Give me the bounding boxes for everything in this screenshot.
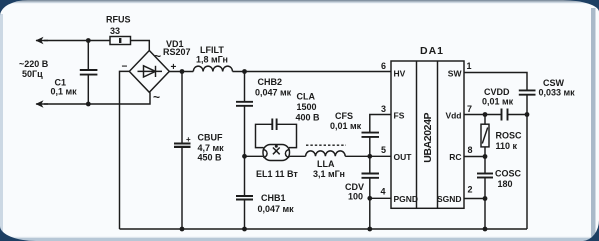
svg-text:CDV: CDV: [345, 182, 364, 192]
capacitor C1: [87, 41, 89, 71]
svg-text:0,01 мк: 0,01 мк: [482, 97, 514, 107]
wire bridge minus to left rail: [120, 71, 130, 229]
wire SW pin1 to CSW: [464, 73, 527, 91]
node AC input line N arrow: [36, 103, 48, 105]
svg-text:4,7 мк: 4,7 мк: [198, 143, 225, 153]
svg-text:CFS: CFS: [335, 111, 353, 121]
svg-text:0,1 мк: 0,1 мк: [51, 87, 78, 97]
wire AC bottom to bridge: [44, 92, 150, 104]
svg-text:2: 2: [468, 185, 473, 195]
node junction CDV bottom rail: [367, 227, 372, 232]
wire RFUS to bridge top: [131, 41, 150, 51]
svg-text:LFILT: LFILT: [200, 45, 224, 55]
inductor LFILT: [193, 66, 232, 71]
node junction ROSC top: [483, 112, 488, 117]
svg-text:RFUS: RFUS: [106, 15, 131, 25]
svg-text:1,8 мГн: 1,8 мГн: [196, 55, 228, 65]
wire SGND pin2: [464, 198, 485, 200]
svg-text:CLA: CLA: [297, 92, 316, 102]
svg-text:3: 3: [381, 104, 386, 114]
svg-text:RS207: RS207: [163, 47, 191, 57]
svg-text:Vdd: Vdd: [445, 111, 461, 121]
capacitor COSC: [484, 157, 486, 174]
svg-text:+: +: [186, 135, 191, 144]
svg-text:HV: HV: [394, 69, 406, 79]
node junction CHB1 bottom rail: [242, 227, 247, 232]
svg-text:33: 33: [110, 26, 120, 36]
svg-text:CBUF: CBUF: [198, 133, 223, 143]
svg-text:8: 8: [468, 145, 473, 155]
svg-text:0,047 мк: 0,047 мк: [255, 88, 292, 98]
node junction C1 bottom: [86, 102, 91, 107]
node junction SGND: [483, 196, 488, 201]
node junction PGND: [367, 196, 372, 201]
capacitor CHB2: [244, 72, 246, 102]
svg-text:50Гц: 50Гц: [22, 69, 43, 79]
wire LFILT to IC pin6: [233, 71, 392, 73]
svg-text:SW: SW: [448, 69, 463, 79]
svg-text:LLA: LLA: [317, 159, 335, 169]
svg-text:ROSC: ROSC: [496, 131, 523, 141]
wire AC top from arrow to RFUS: [44, 40, 110, 42]
svg-text:6: 6: [381, 61, 386, 71]
svg-text:4: 4: [381, 187, 386, 197]
node junction CBUF bottom: [180, 227, 185, 232]
svg-text:5: 5: [381, 145, 386, 155]
svg-text:1: 1: [467, 61, 472, 71]
resistor ROSC: [484, 115, 486, 125]
svg-text:CSW: CSW: [543, 78, 565, 88]
capacitor CFS: [362, 132, 380, 134]
svg-text:UBA2024P: UBA2024P: [422, 112, 434, 162]
capacitor CBUF: [181, 72, 183, 144]
resistor RFUS: [110, 37, 131, 45]
capacitor CLA across lamp: [256, 124, 273, 147]
capacitor CDV: [369, 156, 371, 173]
wire bridge plus to IC HV: [169, 71, 193, 73]
svg-text:1500: 1500: [297, 102, 317, 112]
node AC input line L arrow: [36, 40, 48, 42]
wire bottom rail: [120, 228, 528, 230]
node junction OUT/CFS/CDV: [367, 154, 372, 159]
svg-text:~: ~: [153, 90, 160, 104]
svg-text:180: 180: [498, 179, 513, 189]
svg-text:110 к: 110 к: [496, 141, 518, 151]
wire PGND pin4: [370, 198, 391, 229]
svg-text:RC: RC: [449, 152, 461, 162]
svg-text:7: 7: [467, 104, 472, 114]
svg-text:COSC: COSC: [495, 169, 522, 179]
svg-text:~: ~: [154, 49, 161, 63]
svg-text:3,1 мГн: 3,1 мГн: [313, 169, 345, 179]
svg-text:~220 В: ~220 В: [19, 59, 49, 69]
IC DA1 UBA2024P: [391, 61, 464, 208]
capacitor CVDD: [501, 109, 503, 121]
node junction CVDD right: [525, 112, 530, 117]
lamp EL1: [245, 155, 264, 157]
wire Vdd pin7: [464, 114, 502, 116]
wire RC pin8: [464, 156, 485, 158]
svg-text:OUT: OUT: [394, 152, 413, 162]
svg-text:0,047 мк: 0,047 мк: [258, 204, 295, 214]
svg-text:CHB1: CHB1: [261, 193, 286, 203]
svg-text:DA1: DA1: [420, 45, 444, 57]
svg-text:CHB2: CHB2: [258, 77, 283, 87]
bridge rectifier VD1 RS207: [129, 51, 169, 93]
node junction C1 top: [86, 38, 91, 43]
svg-text:PGND: PGND: [394, 194, 419, 204]
inductor LLA: [306, 151, 346, 156]
wire FS pin3: [370, 115, 391, 133]
node junction rail right: [483, 227, 488, 232]
svg-text:CVDD: CVDD: [484, 87, 510, 97]
capacitor CSW: [519, 89, 536, 91]
svg-text:100: 100: [348, 192, 363, 202]
node junction lamp left: [242, 154, 247, 159]
svg-text:0,01 мк: 0,01 мк: [330, 121, 362, 131]
svg-text:FS: FS: [394, 111, 405, 121]
wire LLA to IC pin5 OUT: [345, 155, 391, 157]
capacitor CHB1: [244, 156, 246, 196]
svg-text:SGND: SGND: [437, 194, 462, 204]
svg-text:400 В: 400 В: [296, 113, 321, 123]
svg-text:EL1 11 Вт: EL1 11 Вт: [256, 169, 298, 179]
node junction RC: [483, 154, 488, 159]
node junction CBUF top: [180, 69, 185, 74]
svg-text:450 В: 450 В: [198, 153, 223, 163]
node junction CHB2 top: [242, 69, 247, 74]
svg-text:0,033 мк: 0,033 мк: [539, 88, 576, 98]
